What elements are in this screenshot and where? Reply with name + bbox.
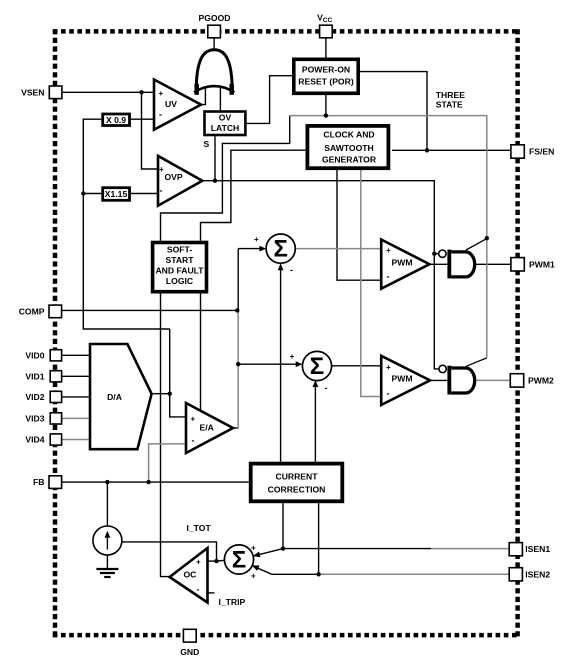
svg-text:I_TOT: I_TOT (187, 523, 212, 533)
svg-text:-: - (325, 383, 328, 393)
svg-text:SOFT-: SOFT- (167, 245, 192, 255)
svg-text:+: + (251, 544, 256, 553)
svg-text:VID0: VID0 (25, 350, 44, 360)
svg-text:+: + (159, 165, 164, 174)
svg-text:-: - (197, 585, 200, 595)
pin PWM1 (511, 258, 524, 271)
svg-text:I_TRIP: I_TRIP (219, 597, 246, 607)
svg-text:STATE: STATE (436, 100, 463, 110)
svg-text:+: + (254, 235, 259, 244)
wire sigma2 plus input (238, 363, 296, 365)
wire DAC node vertical to E/A+ (170, 329, 186, 417)
wire NAND1 out to PWM1 pin (476, 263, 511, 265)
box CLOCK AND SAWTOOTH GENERATOR (307, 126, 388, 168)
wire COMP pin to error amp node (62, 309, 238, 311)
wire OVP apex to node (202, 180, 215, 182)
svg-text:+: + (386, 363, 391, 372)
svg-text:X 0.9: X 0.9 (106, 115, 126, 125)
node COMP junction (235, 308, 239, 312)
svg-text:X1.15: X1.15 (105, 189, 128, 199)
wire OV latch S to OVP out node (214, 136, 216, 181)
wire I_TOT line (122, 542, 217, 561)
svg-text:-: - (290, 265, 293, 275)
node FB current source junction (105, 480, 109, 484)
wire UV out to OR gate (201, 88, 206, 105)
svg-text:GND: GND (180, 647, 199, 657)
node OVP output junction (213, 179, 217, 183)
wire X1.15 out to OVP- (131, 193, 158, 195)
wire clock sawtooth to PWM1- (337, 168, 381, 280)
wire POR out to FS/EN node (360, 72, 427, 151)
svg-text:OV: OV (219, 113, 232, 123)
svg-text:+: + (251, 572, 256, 581)
wire FB to current source (106, 482, 108, 526)
nand gate NAND2 with bubble input (439, 365, 475, 394)
svg-text:OC: OC (184, 570, 197, 580)
wire error amp node vertical lower (E/A output) (237, 310, 239, 428)
box OV LATCH U-latch (205, 112, 246, 136)
or-gate PGOOD (inverted OR) (194, 50, 234, 95)
svg-text:VID3: VID3 (25, 414, 44, 424)
wire PWM1 out to NAND1 (430, 263, 448, 265)
node NAND1 bubble junction (432, 252, 436, 256)
IC boundary dashed border (53, 29, 520, 637)
svg-text:RESET (POR): RESET (POR) (298, 77, 354, 87)
wire current source to ground (106, 555, 108, 569)
comparator OC overcurrent (170, 548, 208, 603)
wire sigma1 plus input (238, 248, 260, 250)
arrowhead sigma3 lower (252, 565, 260, 571)
pin ISEN2 (509, 568, 522, 581)
wire X1.15 input stub (83, 193, 101, 195)
svg-text:CC: CC (323, 17, 333, 24)
node ISEN2 junction (316, 572, 320, 576)
wire D/A output node (152, 393, 170, 395)
wire NAND1 bubble stub (434, 253, 439, 255)
svg-text:VID4: VID4 (25, 435, 44, 445)
arrowhead sigma1 minus (278, 263, 284, 270)
comparator PWM1 (381, 240, 429, 289)
wire PWM2 out to NAND2 (430, 379, 448, 381)
pin PGOOD (208, 25, 221, 38)
multiplier box X1.15 (103, 188, 130, 201)
wire FB to E/A minus (149, 444, 186, 482)
wire sigma2 minus from current correction (314, 381, 316, 462)
svg-text:VSEN: VSEN (21, 87, 44, 97)
pin VCC (320, 25, 333, 38)
wire current correction to ISEN1 line (282, 503, 284, 548)
wire current correction to ISEN2 line (318, 503, 320, 574)
pin ISEN1 (509, 543, 522, 556)
node sigma2 plus junction (236, 362, 240, 366)
pin PWM2 (510, 374, 523, 387)
wire ISEN1 line black part (283, 548, 431, 550)
svg-text:START: START (165, 255, 194, 265)
wire three-state switch lever NAND2 (466, 358, 487, 366)
svg-text:PWM2: PWM2 (528, 376, 554, 386)
wire clock sawtooth to PWM2- gray (361, 168, 381, 396)
node X1.15 junction (81, 191, 85, 195)
svg-text:ISEN1: ISEN1 (525, 544, 550, 554)
svg-text:-: - (387, 272, 390, 282)
svg-text:FB: FB (33, 477, 44, 487)
svg-text:D/A: D/A (107, 392, 122, 402)
svg-text:CLOCK AND: CLOCK AND (323, 130, 374, 140)
svg-text:UV: UV (165, 99, 177, 109)
pin FS/EN (511, 145, 524, 158)
arrowhead sigma2 minus (313, 380, 319, 387)
box POWER-ON RESET (POR) (294, 59, 358, 93)
arrowhead sigma2 plus (296, 361, 303, 367)
svg-text:+: + (290, 352, 295, 361)
svg-text:THREE: THREE (436, 90, 465, 100)
summer sigma3 (224, 544, 256, 581)
svg-text:+: + (191, 414, 196, 423)
svg-text:-: - (192, 435, 195, 445)
svg-text:+: + (159, 89, 164, 98)
wire VID2 input (61, 396, 90, 398)
comparator PWM2 (381, 356, 430, 405)
wire FB pin to current correction (62, 481, 249, 483)
svg-text:-: - (159, 110, 162, 120)
summer sigma1 (254, 234, 295, 275)
comparator UV (154, 80, 201, 130)
wire VID4 input gray (61, 439, 90, 441)
wire DAC reference vertical to X0.9 and X1.15 (83, 119, 169, 329)
wire ISEN1 gray part (431, 548, 510, 550)
svg-text:Σ: Σ (310, 353, 324, 380)
svg-text:CURRENT: CURRENT (275, 471, 318, 481)
svg-text:+: + (386, 246, 391, 255)
wire OC minus stub I_TRIP (208, 592, 215, 594)
svg-text:GENERATOR: GENERATOR (322, 154, 377, 164)
node VSEN/UV junction (139, 90, 143, 94)
svg-text:+: + (196, 557, 201, 566)
wire POR to soft-start (A) (161, 116, 290, 241)
wire soft-start to E/A (200, 294, 202, 411)
wire sigma2 output to PWM2+ (332, 365, 382, 367)
svg-text:-: - (387, 388, 390, 398)
wire three-state gray line from POR (290, 116, 487, 239)
arrowhead sigma1 plus (259, 246, 266, 252)
wire X0.9 out to UV- (131, 118, 155, 120)
svg-text:VID2: VID2 (25, 392, 44, 402)
arrowhead sigma3 upper (253, 552, 261, 558)
svg-text:COMP: COMP (19, 307, 45, 317)
svg-text:ISEN2: ISEN2 (525, 569, 550, 579)
ground symbol (96, 569, 118, 577)
wire clock generator to FS/EN pin (392, 149, 511, 151)
svg-text:VID1: VID1 (25, 371, 44, 381)
svg-text:LOGIC: LOGIC (166, 276, 193, 286)
svg-text:PWM: PWM (392, 374, 413, 384)
svg-text:OVP: OVP (165, 172, 183, 182)
pin GND (183, 629, 196, 642)
svg-text:POWER-ON: POWER-ON (302, 65, 350, 75)
wire ISEN1 diagonal into sigma3 (254, 549, 283, 556)
wire sigma1 minus from current correction (280, 265, 282, 462)
svg-text:S: S (204, 139, 210, 149)
pin COMP (49, 305, 62, 318)
pin VID2 (50, 391, 61, 402)
svg-text:PWM: PWM (392, 257, 413, 267)
pin VID0 (50, 350, 61, 361)
wire POR bottom stem (325, 95, 327, 116)
summer sigma2 (290, 351, 332, 393)
current source I_FB circle with up arrow (93, 526, 122, 555)
pin FB (49, 476, 62, 489)
nand gate NAND1 with bubble input (439, 250, 475, 279)
wire sigma3 output stub (217, 559, 226, 562)
pin VSEN (49, 86, 62, 99)
svg-text:Σ: Σ (273, 236, 287, 263)
wire VSEN to UV+ (62, 91, 154, 93)
wire E/A apex stub (233, 427, 238, 429)
svg-text:SAWTOOTH: SAWTOOTH (324, 143, 374, 153)
wire OV latch to POR (247, 76, 292, 124)
pin VID1 (50, 371, 61, 382)
node ISEN1 junction (281, 546, 285, 550)
svg-text:PWM1: PWM1 (529, 259, 555, 269)
box CURRENT CORRECTION (251, 464, 343, 502)
wire three-state gray vertical to NAND2 (486, 238, 488, 357)
node FB E/A junction (146, 480, 150, 484)
wire NAND2 out to PWM2 pin (477, 379, 511, 381)
dac D/A converter polygon (90, 344, 152, 449)
wire OV latch top to OR gate (219, 88, 221, 111)
wire ISEN2 gray part (320, 573, 510, 575)
svg-text:PGOOD: PGOOD (199, 13, 231, 23)
wire VSEN branch to OVP+ (142, 92, 159, 169)
node FS/EN junction (425, 148, 429, 152)
svg-text:LATCH: LATCH (211, 123, 239, 133)
wire ISEN2 line black part (272, 573, 320, 575)
wire VID0 input (61, 354, 90, 356)
pin VID3 (50, 413, 61, 424)
comparator OVP (158, 156, 202, 206)
wire VCC stem (325, 38, 327, 58)
wire sigma1 output to PWM1+ (295, 248, 381, 250)
wire error amp node vertical upper (237, 249, 239, 311)
svg-text:-: - (160, 186, 163, 196)
node I_TOT OC junction (214, 559, 218, 563)
wire VID3 input gray (61, 417, 90, 419)
wire VID1 input (61, 375, 90, 377)
pin VID4 (50, 434, 61, 445)
svg-text:Σ: Σ (232, 547, 246, 574)
wire three-state switch lever NAND1 (466, 239, 487, 250)
node three-state NAND1 junction (485, 236, 489, 240)
wire PGOOD stem (213, 38, 215, 51)
multiplier box X 0.9 (103, 114, 130, 126)
node POR bottom junction (324, 113, 328, 117)
svg-text:AND FAULT: AND FAULT (155, 265, 204, 275)
svg-text:FS/EN: FS/EN (529, 147, 554, 157)
wire OC plus stub (208, 560, 217, 562)
error amp E/A (186, 403, 233, 453)
wire OVP out to NAND column (215, 181, 440, 369)
box SOFT-START AND FAULT LOGIC (153, 243, 207, 292)
wire clock to soft-start (B) (201, 150, 307, 241)
wire soft-start to OC output column (161, 294, 170, 577)
wire ISEN2 diagonal into sigma3 (253, 566, 272, 574)
node DAC output junction (168, 392, 172, 396)
svg-text:CORRECTION: CORRECTION (268, 485, 326, 495)
svg-text:E/A: E/A (200, 423, 214, 433)
